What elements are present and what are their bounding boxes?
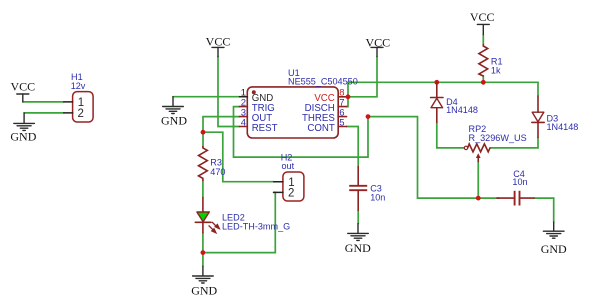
reference R3 xyxy=(210,158,222,168)
net label GND (LED2) xyxy=(191,283,217,297)
svg-text:out: out xyxy=(282,161,295,171)
net label VCC (U1 pin8) xyxy=(365,35,390,49)
reference D3 xyxy=(547,113,559,123)
U1 pin6 number xyxy=(339,108,344,119)
value 1k xyxy=(491,65,501,75)
node A junction xyxy=(201,130,206,135)
node B junction xyxy=(201,250,206,255)
U1 pin 6 xyxy=(338,116,346,118)
wire node A to H2 pin1 xyxy=(203,132,274,182)
net label VCC (R1) xyxy=(470,10,495,24)
U1 pin 1 xyxy=(240,96,248,98)
op-amp U1 body xyxy=(247,87,338,138)
svg-text:12v: 12v xyxy=(71,81,86,91)
U1 pin 7 xyxy=(338,106,346,108)
resistor R1 xyxy=(479,45,488,76)
wire THRES junction to wiper net xyxy=(368,117,499,199)
svg-text:5: 5 xyxy=(339,117,344,128)
U1 pin name REST xyxy=(252,123,278,134)
svg-text:LED-TH-3mm_G: LED-TH-3mm_G xyxy=(222,222,290,232)
node D4 junction xyxy=(434,80,439,85)
U1 pin name GND xyxy=(252,93,274,104)
value NE555_C504550 xyxy=(288,76,358,86)
U1 pin name THRES xyxy=(302,113,335,124)
U1 pin2 number xyxy=(241,98,246,109)
U1 pin8 number xyxy=(339,88,344,99)
node D junction xyxy=(476,196,481,201)
U1 pin name TRIG xyxy=(252,103,275,114)
svg-text:R_3296W_US: R_3296W_US xyxy=(469,133,527,143)
wire CONT net: U1 pin5 to C3 xyxy=(347,127,359,167)
ground (LED2) xyxy=(193,266,214,283)
wire LED2 cathode to node B xyxy=(202,233,204,253)
svg-text:1N4148: 1N4148 xyxy=(547,122,579,132)
trimmer RP2 xyxy=(464,144,490,162)
node THRES junction xyxy=(366,114,371,119)
net label VCC (REST) xyxy=(206,35,231,49)
U1 pin name OUT xyxy=(252,113,273,124)
net label GND (U1 pin1) xyxy=(161,113,187,127)
svg-text:1k: 1k xyxy=(491,65,501,75)
wire VCC to R1 top xyxy=(482,35,484,45)
svg-text:2: 2 xyxy=(288,188,294,200)
ground (C4) xyxy=(543,222,564,238)
U1 pin name VCC xyxy=(314,93,334,104)
wire C3 bottom to ground xyxy=(357,210,359,223)
wire D4 cathode to RP2 left xyxy=(437,122,464,147)
ground (H1) xyxy=(14,113,35,130)
diode D4 xyxy=(431,82,443,122)
power flag VCC (R1) xyxy=(477,24,489,34)
wire GND to U1 pin1 xyxy=(173,96,240,98)
reference LED2 xyxy=(222,213,245,223)
reference C4 xyxy=(513,169,525,179)
svg-text:REST: REST xyxy=(252,123,278,134)
wire node B to H2 pin2 xyxy=(203,192,275,252)
net label VCC (H1) xyxy=(10,80,35,94)
U1 pin1 number xyxy=(241,88,246,99)
reference C3 xyxy=(370,184,382,194)
reference RP2 xyxy=(469,124,487,134)
wire R3 bottom to LED2 anode xyxy=(202,181,204,198)
wire node C to VCC symbol xyxy=(348,57,377,97)
U1 pin name CONT xyxy=(307,123,335,134)
ground (U1 GND pin) xyxy=(163,97,184,114)
LED LED2 xyxy=(195,198,219,233)
power flag VCC (H1) xyxy=(17,94,29,102)
value R_3296W_US xyxy=(469,133,527,143)
svg-text:GND: GND xyxy=(345,241,371,255)
U1 pin 3 xyxy=(240,116,248,118)
value 12v xyxy=(71,81,86,91)
capacitor C3 xyxy=(349,167,367,211)
svg-text:2: 2 xyxy=(78,108,84,120)
svg-text:GND: GND xyxy=(541,242,567,256)
capacitor C4 xyxy=(497,191,534,206)
U1 pin7 number xyxy=(339,98,344,109)
value 10n (C4) xyxy=(512,177,527,187)
svg-text:4: 4 xyxy=(241,117,246,128)
U1 pin name DISCH xyxy=(305,103,335,114)
svg-text:10n: 10n xyxy=(512,177,527,187)
U1 pin 8 xyxy=(338,96,346,98)
wire TRIG net: U1 pin2 to THRES junction xyxy=(234,107,369,158)
wire D3 cathode to RP2 right xyxy=(491,138,539,148)
U1 pin 5 xyxy=(338,126,346,128)
value out xyxy=(282,161,295,171)
wire R1 bottom to rail junction xyxy=(482,76,484,82)
node R1 junction xyxy=(481,80,486,85)
power flag VCC (U1 REST) xyxy=(212,47,224,56)
value 1N4148 (D4) xyxy=(446,105,478,115)
U1 pin 4 xyxy=(240,126,248,128)
U1 pin 2 xyxy=(240,106,248,108)
reference D4 xyxy=(446,97,458,107)
U1 pin3 number xyxy=(241,108,246,119)
power flag VCC (U1 pin8) xyxy=(371,47,383,56)
diode D3 xyxy=(532,96,544,138)
wire top rail to D3 anode xyxy=(537,82,539,96)
svg-text:1N4148: 1N4148 xyxy=(446,105,478,115)
net label GND (C3) xyxy=(345,241,371,255)
wire node B to ground xyxy=(202,253,204,267)
value LED-TH-3mm_G xyxy=(222,222,290,232)
node C junction xyxy=(346,94,351,99)
connector H1 xyxy=(64,92,93,122)
svg-text:VCC: VCC xyxy=(10,80,35,94)
U1 pin4 number xyxy=(241,117,246,128)
svg-text:GND: GND xyxy=(10,130,36,144)
svg-text:1: 1 xyxy=(78,97,84,109)
wire VCC to U1 pin4 REST xyxy=(218,56,240,126)
reference U1 xyxy=(288,68,300,78)
value 470 xyxy=(210,167,225,177)
svg-text:VCC: VCC xyxy=(206,35,231,49)
wire U1 pin7 to node C xyxy=(347,97,349,107)
net label GND (C4) xyxy=(541,242,567,256)
U1 pin5 number xyxy=(339,117,344,128)
wire RP2 wiper to node D xyxy=(477,161,479,198)
resistor R3 xyxy=(199,147,208,181)
wire H1 pin1 to VCC xyxy=(23,101,64,103)
connector H2 xyxy=(274,172,304,201)
wire OUT net: U1 pin3 to node A xyxy=(203,117,240,147)
value 10n (C3) xyxy=(370,192,385,202)
reference H1 xyxy=(71,72,83,82)
svg-text:GND: GND xyxy=(161,113,187,127)
wire H1 pin2 to GND xyxy=(24,112,64,114)
svg-text:10n: 10n xyxy=(370,192,385,202)
svg-text:VCC: VCC xyxy=(470,10,495,24)
svg-text:NE555_C504550: NE555_C504550 xyxy=(288,76,358,86)
reference R1 xyxy=(491,57,503,67)
svg-text:CONT: CONT xyxy=(307,123,335,134)
wire node C to top rail xyxy=(348,82,538,97)
ground (C3) xyxy=(348,224,369,241)
net label GND (H1) xyxy=(10,130,36,144)
svg-text:470: 470 xyxy=(210,167,225,177)
svg-text:VCC: VCC xyxy=(365,35,390,49)
value 1N4148 (D3) xyxy=(547,122,579,132)
reference H2 xyxy=(281,153,293,163)
svg-text:GND: GND xyxy=(191,283,217,297)
wire C4 right to ground xyxy=(534,198,554,222)
